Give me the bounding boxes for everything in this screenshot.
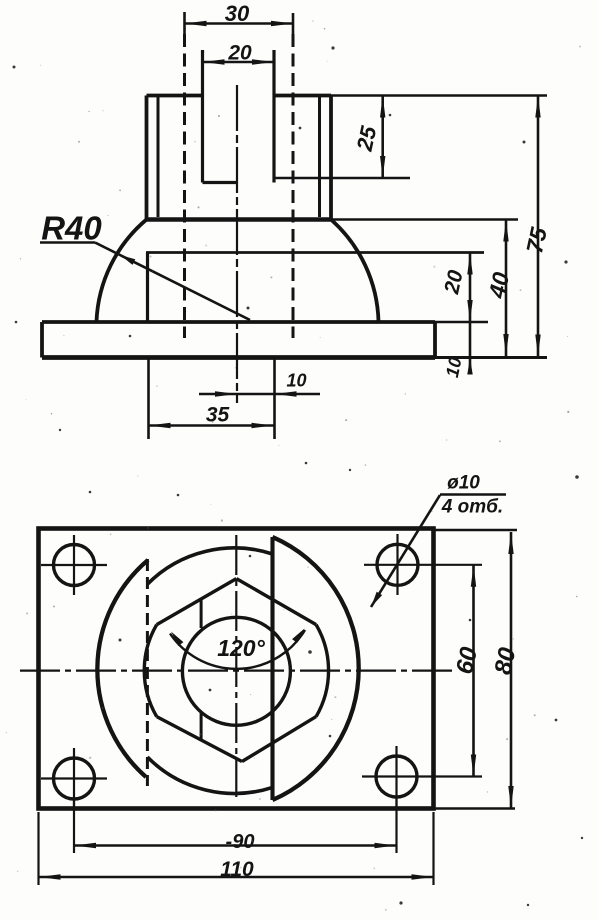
svg-text:120°: 120°: [217, 635, 265, 661]
svg-text:35: 35: [206, 404, 230, 427]
svg-text:ø10: ø10: [447, 473, 480, 494]
svg-text:R40: R40: [41, 210, 102, 247]
svg-text:25: 25: [352, 123, 382, 154]
svg-text:40: 40: [483, 270, 514, 302]
svg-text:80: 80: [489, 645, 521, 677]
svg-text:20: 20: [440, 268, 468, 297]
svg-text:30: 30: [225, 1, 250, 26]
svg-text:4 отб.: 4 отб.: [441, 497, 503, 518]
svg-text:10: 10: [286, 371, 306, 391]
svg-text:75: 75: [521, 224, 552, 256]
svg-text:-90: -90: [226, 831, 255, 853]
svg-text:60: 60: [451, 644, 483, 676]
svg-text:20: 20: [227, 42, 252, 65]
svg-text:10: 10: [442, 355, 466, 379]
svg-text:110: 110: [220, 858, 254, 881]
